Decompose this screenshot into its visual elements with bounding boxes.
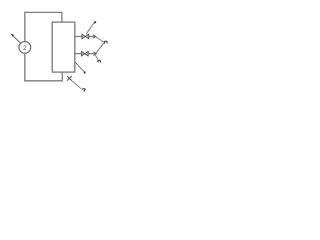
drain valve X (67, 76, 72, 81)
wire outlet pipe 2 (75, 53, 97, 55)
wire bottom pipe (25, 80, 63, 82)
label m (98, 60, 101, 62)
wire top pipe (25, 11, 62, 13)
valve V1 (bowtie) (82, 34, 89, 39)
leader from vessel wall to label 4 (75, 62, 84, 72)
leader from outlet 2 up to label n1 (96, 43, 104, 53)
wire top down-leg into vessel (61, 12, 63, 22)
wire left pipe upper (24, 12, 26, 42)
leader from valve V1 to label a (86, 23, 93, 34)
leader from outlet 2 down to label m (95, 54, 98, 60)
leader from outlet 1 to label n1 (96, 37, 104, 42)
vessel 1 (rectangle) (52, 22, 75, 72)
valve V2 (bowtie) (81, 51, 88, 56)
gauge needle / leader arrow (11, 34, 21, 44)
wire outlet pipe 1 (75, 36, 96, 38)
leader from valve X to label 7 (72, 81, 81, 89)
arrowhead outlet 2 (93, 52, 96, 56)
svg-text:2: 2 (23, 45, 27, 52)
label 4 (arrow-like blob) (83, 71, 86, 74)
wire left pipe lower (24, 53, 26, 81)
label n1 (104, 41, 107, 44)
wire bottom up-leg into vessel (61, 72, 63, 81)
label 7 (82, 89, 85, 92)
label a (above valve V1) (93, 21, 96, 23)
arrowhead outlet 1 (93, 35, 96, 38)
pump/gauge 2 (circle) (19, 42, 31, 54)
